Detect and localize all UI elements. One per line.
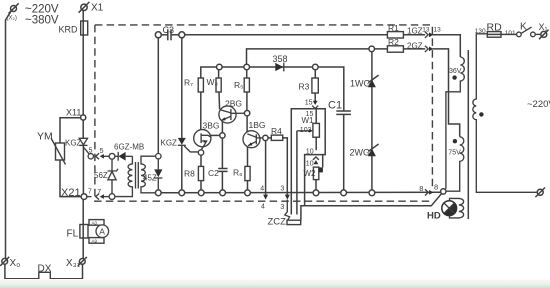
bottom rail [161, 191, 441, 194]
capacitor C2 [218, 138, 227, 190]
svg-text:C2: C2 [208, 168, 219, 178]
switch K [517, 27, 541, 37]
node 3BG emitter [198, 150, 203, 155]
wire KGZ diode to X21 node [82, 145, 84, 194]
wire R3 down pin15 [314, 93, 316, 101]
svg-text:2WG: 2WG [350, 148, 371, 158]
svg-text:R4: R4 [271, 126, 282, 136]
svg-text:130: 130 [475, 28, 486, 35]
svg-text:~220V: ~220V [527, 99, 550, 110]
svg-text:KGZ: KGZ [65, 138, 82, 147]
connector pin5 chevrons and wire [96, 153, 110, 159]
node R4 left [263, 135, 268, 140]
fuse RD [487, 32, 501, 38]
wire 2GZ to 75V winding [432, 49, 459, 137]
svg-text:101: 101 [505, 30, 516, 37]
wire branch to pin5 circle [84, 148, 90, 155]
wire WG column [371, 52, 373, 190]
svg-text:R₆: R₆ [233, 168, 243, 178]
wiper W2 tab [319, 167, 323, 172]
wire ZCZ output to HD [301, 194, 442, 221]
svg-text:10: 10 [306, 160, 314, 167]
connector pin4 arrow [263, 195, 268, 200]
capacitor C1 [336, 111, 351, 190]
node 2BG collector [244, 111, 249, 116]
connector ZCZ plug bar [287, 220, 301, 224]
svg-text:K: K [520, 22, 527, 33]
wire X11 row to left branch [60, 118, 81, 143]
transformer T 75V winding [446, 137, 464, 191]
svg-text:ZCZ: ZCZ [268, 216, 287, 227]
dot primary [479, 112, 483, 116]
node R8 rail [198, 190, 204, 196]
wire W1 wiper down [296, 131, 298, 215]
connector 8 chevrons [425, 189, 428, 195]
svg-text:~380V: ~380V [25, 15, 59, 27]
svg-text:C3: C3 [163, 25, 175, 35]
svg-text:W1: W1 [302, 116, 315, 125]
svg-text:3: 3 [280, 204, 284, 211]
resistor R4 [271, 135, 282, 140]
svg-text:RD: RD [487, 22, 503, 34]
wire R6 to rail [247, 181, 249, 190]
resistor R6 [245, 166, 250, 180]
wire thyristor column [181, 38, 183, 138]
svg-text:X1: X1 [91, 3, 104, 14]
resistor R2 [387, 46, 403, 52]
transistor 2BG [219, 106, 245, 123]
svg-text:5: 5 [89, 147, 93, 154]
svg-text:A9: A9 [92, 238, 98, 243]
node pin5 female [88, 154, 93, 159]
resistor R5 [244, 78, 249, 92]
thyristor KGZ [178, 138, 199, 190]
diode 6GZ [115, 152, 132, 161]
dot 75V [453, 139, 457, 143]
wire pin4 from R4 node down [265, 141, 267, 195]
wire bottom loop X0 to X31 [5, 264, 83, 279]
wire 1BG emitter to R6 [247, 147, 249, 167]
transformer MB right winding [141, 156, 156, 193]
svg-text:13: 13 [434, 26, 442, 33]
transformer MB left winding [115, 156, 132, 196]
svg-text:4: 4 [261, 204, 265, 211]
wire R2 rail from bus corner [247, 49, 388, 64]
terminal right bottom [535, 188, 545, 198]
diode KGZ (shunt diode) [79, 138, 87, 145]
node pin5 male [109, 153, 115, 159]
wire X11 node down to diode KGZ [82, 120, 84, 138]
wire R4 right down pin3 [283, 138, 288, 195]
node thyristor rail [179, 190, 185, 196]
svg-text:R₅: R₅ [234, 80, 244, 90]
terminal X2 top left [9, 3, 19, 13]
capacitor C3 [155, 29, 185, 40]
svg-text:X11: X11 [66, 108, 81, 118]
svg-text:7: 7 [88, 188, 92, 195]
svg-text:W2: W2 [304, 169, 317, 178]
svg-text:75V: 75V [448, 149, 461, 156]
wire rail y67 [201, 67, 344, 111]
svg-text:C1: C1 [328, 100, 342, 112]
wire 1GZ to 36V winding [432, 35, 460, 57]
connector ZCZ zigzag pin3 [285, 200, 290, 221]
wire W3 to 2BG [218, 92, 221, 109]
connector pin10 chevrons [313, 157, 319, 160]
svg-text:X₀: X₀ [10, 258, 21, 269]
svg-text:4: 4 [260, 185, 264, 192]
transformer T primary [473, 34, 540, 193]
wire R7 to 3BG [200, 92, 202, 130]
svg-text:YM: YM [37, 131, 53, 143]
wire R2 to chevron [403, 48, 425, 50]
svg-text:W₃: W₃ [207, 77, 218, 87]
wire X1 to KRD [82, 10, 84, 21]
wire W1 bottom pin10 [315, 137, 317, 150]
svg-text:KGZ: KGZ [161, 138, 178, 147]
terminal X0 [0, 257, 9, 266]
svg-text:15: 15 [305, 100, 313, 107]
svg-text:1WG: 1WG [350, 79, 371, 89]
transformer MB core [136, 162, 139, 189]
wire C3 left column down [157, 38, 159, 154]
node X21 [81, 194, 87, 200]
zener 1WG [368, 75, 379, 87]
node WG rail [369, 190, 375, 196]
connector pin3 arrow [285, 195, 290, 200]
wire RD to K [501, 33, 517, 35]
svg-text:8: 8 [434, 183, 438, 192]
wire W2 bottom to rail [315, 180, 317, 190]
wire KRD to X11 node [82, 35, 84, 115]
wire 2BG emitter down [221, 122, 223, 133]
shunt FL [80, 200, 104, 259]
connector pin15 arrow [313, 101, 318, 105]
terminal X1 top [79, 2, 90, 13]
connector 1GZ chevrons [425, 32, 428, 38]
svg-text:R1: R1 [388, 23, 399, 33]
fuse KRD [81, 21, 88, 35]
resistor R3 [312, 78, 318, 93]
terminal X1 right [539, 30, 549, 40]
resistor R1 [387, 32, 403, 38]
wire W2 wiper up [322, 155, 324, 168]
potentiometer W3 [216, 78, 221, 92]
node rail left end [155, 190, 161, 196]
svg-text:36V: 36V [449, 68, 462, 75]
svg-text:X21: X21 [61, 187, 81, 199]
node R5 top [244, 64, 250, 70]
dashed control box outline [95, 25, 433, 201]
svg-text:R2: R2 [388, 37, 399, 47]
wire left rail from X2 down to X0 [6, 11, 12, 259]
diode 358 [275, 63, 284, 72]
zener 56Z [108, 159, 119, 194]
resistor R8 [198, 166, 203, 180]
wiper W1 [297, 129, 313, 133]
node X11 [81, 115, 86, 120]
resistor R7 [198, 78, 203, 92]
transformer T core [467, 50, 469, 219]
node pin7 male [109, 194, 115, 200]
solenoid YM [51, 138, 66, 165]
svg-text:HD: HD [427, 211, 441, 222]
node W3 top [217, 64, 223, 70]
svg-text:X₃₁: X₃₁ [66, 258, 81, 269]
wire R1 to chevron [403, 34, 425, 36]
svg-text:2BG: 2BG [225, 99, 242, 109]
svg-text:3: 3 [280, 185, 284, 192]
green footer band [0, 279, 550, 288]
svg-text:X₁: X₁ [539, 22, 548, 32]
node HD junction [441, 189, 446, 194]
node C1 rail [341, 190, 347, 196]
wire 3BG collector to node [211, 134, 220, 136]
connector 2GZ chevrons [425, 46, 428, 52]
node C2 rail [220, 190, 226, 196]
node C2 top junction [220, 133, 225, 138]
svg-text:FL: FL [67, 229, 79, 240]
transistor 1BG [243, 131, 263, 148]
zener 2WG [368, 144, 379, 156]
node 45Z top [156, 154, 161, 159]
svg-text:R3: R3 [299, 82, 310, 92]
wire bus to 1BG [246, 116, 248, 133]
wire YM to X21 row [60, 160, 81, 197]
svg-text:R8: R8 [184, 168, 195, 178]
wire R8 to rail [200, 181, 202, 190]
wire emitter node to R8 [200, 155, 202, 166]
potentiometer W1 [313, 123, 320, 137]
diode 45Z [154, 159, 162, 190]
svg-text:10: 10 [306, 149, 314, 156]
timer DX [39, 272, 51, 285]
node 1WG top [369, 46, 375, 52]
svg-text:5: 5 [100, 148, 104, 155]
svg-text:DX: DX [38, 264, 52, 275]
svg-text:56Z: 56Z [94, 171, 108, 180]
svg-text:1BG: 1BG [249, 120, 266, 130]
ammeter A [96, 225, 109, 238]
winding HD [450, 198, 464, 218]
terminal X31 [78, 257, 87, 266]
svg-text:R₇: R₇ [184, 78, 193, 88]
transformer T 36V winding [446, 57, 464, 189]
speed control sub-box outline [291, 109, 325, 215]
dot 36V [452, 75, 456, 79]
svg-text:A0: A0 [92, 220, 98, 225]
svg-text:8: 8 [419, 184, 423, 193]
node R3 top [313, 64, 319, 70]
svg-text:KRD: KRD [59, 25, 79, 35]
node R6 rail [245, 190, 251, 196]
svg-text:3BG: 3BG [203, 121, 220, 131]
svg-text:6GZ-MB: 6GZ-MB [114, 142, 144, 151]
connector pin7 chevrons and wire [87, 194, 109, 200]
transistor 3BG [194, 130, 211, 150]
lamp HD [442, 201, 457, 216]
wire top rail 1GZ [185, 34, 388, 36]
potentiometer W2 [313, 167, 318, 180]
svg-text:A: A [99, 226, 105, 236]
node W2 rail [313, 190, 319, 196]
wire bus R5 to 2BG node [246, 92, 248, 111]
svg-text:358: 358 [273, 54, 288, 64]
